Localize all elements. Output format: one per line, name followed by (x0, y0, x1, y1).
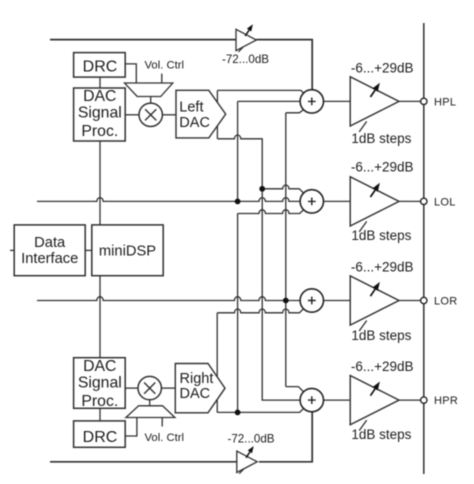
svg-text:1dB steps: 1dB steps (351, 328, 411, 343)
svg-text:Interface: Interface (21, 251, 78, 267)
svg-text:DAC: DAC (83, 88, 116, 105)
svg-text:DRC: DRC (83, 429, 118, 446)
svg-text:Right: Right (180, 371, 214, 387)
svg-text:-6...+29dB: -6...+29dB (351, 359, 414, 374)
svg-text:miniDSP: miniDSP (99, 244, 156, 260)
svg-text:Signal: Signal (78, 375, 122, 392)
svg-text:Left: Left (179, 99, 203, 115)
svg-text:HPR: HPR (434, 395, 458, 407)
svg-text:DAC: DAC (180, 386, 211, 402)
svg-text:-6...+29dB: -6...+29dB (351, 259, 414, 274)
svg-text:1dB steps: 1dB steps (351, 427, 411, 442)
svg-text:1dB steps: 1dB steps (351, 131, 411, 146)
svg-text:HPL: HPL (434, 96, 456, 108)
svg-text:Signal: Signal (78, 105, 122, 122)
svg-text:DAC: DAC (83, 358, 116, 375)
svg-text:Proc.: Proc. (81, 123, 118, 140)
svg-text:Proc.: Proc. (81, 393, 118, 410)
svg-text:DRC: DRC (83, 58, 118, 75)
svg-text:-72...0dB: -72...0dB (222, 53, 269, 66)
svg-text:-72...0dB: -72...0dB (227, 433, 274, 446)
svg-text:Data: Data (34, 235, 66, 251)
svg-text:-6...+29dB: -6...+29dB (351, 160, 414, 175)
svg-text:Vol. Ctrl: Vol. Ctrl (145, 60, 185, 72)
svg-text:-6...+29dB: -6...+29dB (351, 60, 414, 75)
svg-text:LOL: LOL (434, 196, 456, 208)
svg-text:1dB steps: 1dB steps (351, 228, 411, 243)
svg-text:Vol. Ctrl: Vol. Ctrl (145, 432, 185, 444)
svg-text:DAC: DAC (179, 115, 210, 131)
svg-text:LOR: LOR (434, 295, 458, 307)
